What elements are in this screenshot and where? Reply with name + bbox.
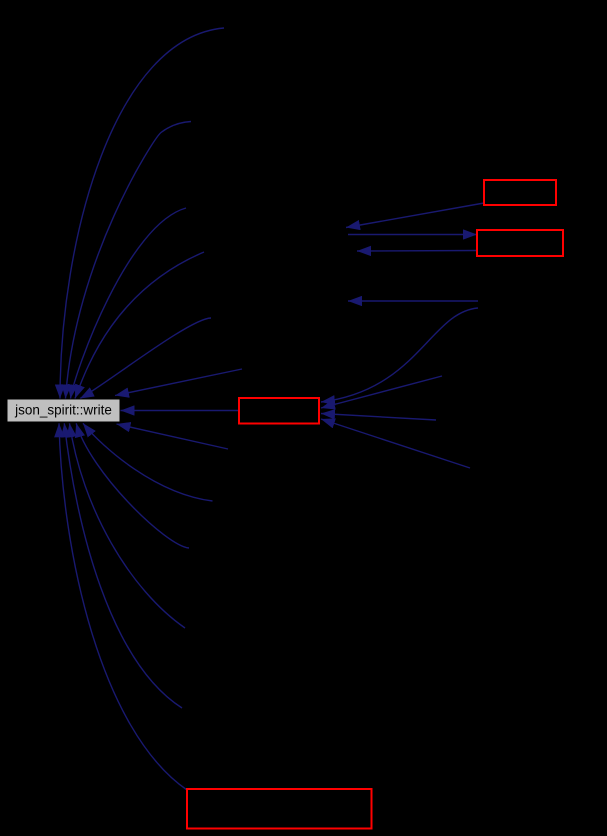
svg-text:json_spirit::write: json_spirit::write: [14, 402, 112, 417]
